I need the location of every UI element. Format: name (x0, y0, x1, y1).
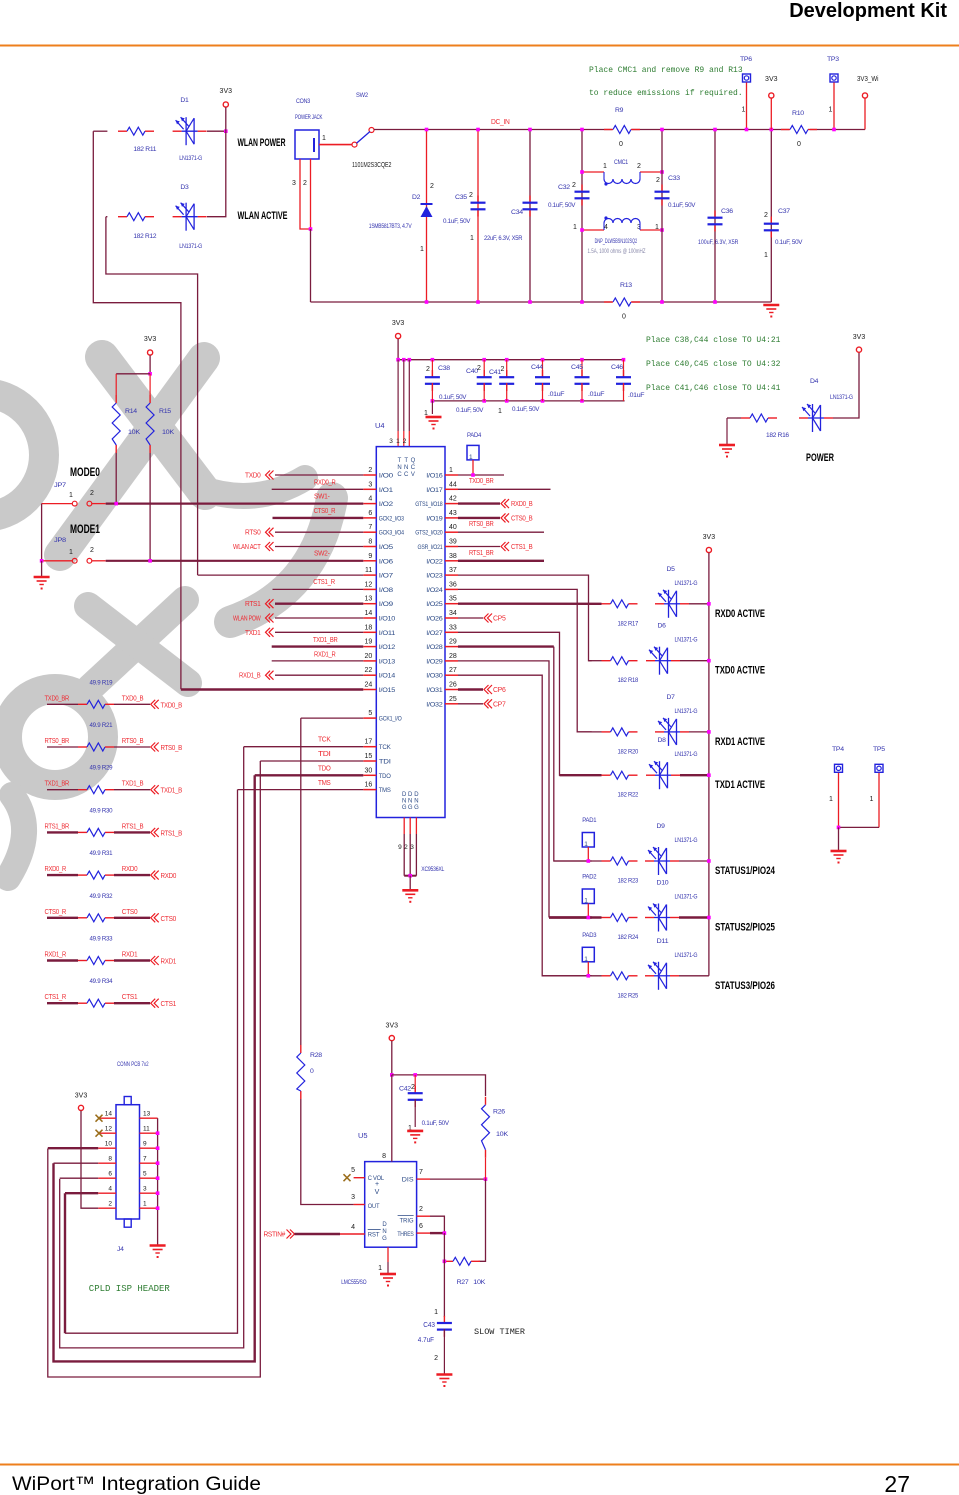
svg-text:1: 1 (573, 224, 577, 231)
svg-text:C38: C38 (438, 365, 450, 372)
svg-text:TP5: TP5 (873, 746, 885, 753)
svg-text:TXD0_B: TXD0_B (161, 700, 183, 709)
svg-text:I/O29: I/O29 (426, 658, 443, 665)
svg-text:39: 39 (449, 539, 457, 546)
svg-text:CPLD ISP HEADER: CPLD ISP HEADER (89, 1284, 171, 1294)
svg-text:STATUS3/PIO26: STATUS3/PIO26 (715, 980, 775, 992)
svg-text:33: 33 (449, 624, 457, 631)
svg-text:8: 8 (368, 539, 372, 546)
svg-text:4: 4 (368, 496, 372, 503)
svg-text:SLOW TIMER: SLOW TIMER (474, 1327, 525, 1337)
svg-text:4: 4 (351, 1224, 355, 1231)
svg-text:LN1371-G: LN1371-G (675, 894, 698, 901)
svg-text:3: 3 (368, 481, 372, 488)
svg-text:20: 20 (365, 653, 373, 660)
svg-text:RTS0_BR: RTS0_BR (469, 519, 494, 528)
svg-text:38: 38 (449, 553, 457, 560)
svg-text:25: 25 (449, 696, 457, 703)
svg-text:N: N (408, 799, 412, 805)
svg-text:3: 3 (292, 180, 296, 187)
svg-text:LN1371-G: LN1371-G (179, 243, 202, 250)
svg-text:49.9 R29: 49.9 R29 (90, 765, 113, 772)
svg-text:STATUS1/PIO24: STATUS1/PIO24 (715, 865, 776, 877)
svg-text:Q: Q (411, 458, 416, 464)
svg-text:RXD0: RXD0 (161, 871, 177, 880)
svg-text:0: 0 (619, 141, 623, 148)
svg-text:2: 2 (764, 212, 768, 219)
svg-text:0.1uF, 50V: 0.1uF, 50V (456, 407, 484, 414)
svg-text:3V3_Wi: 3V3_Wi (857, 76, 879, 83)
svg-text:N: N (404, 465, 408, 471)
svg-text:5: 5 (368, 710, 372, 717)
svg-text:C43: C43 (423, 1322, 435, 1329)
svg-text:12: 12 (105, 1126, 113, 1133)
svg-text:1: 1 (870, 796, 874, 803)
svg-text:14: 14 (365, 610, 373, 617)
svg-text:RXD1: RXD1 (122, 950, 138, 959)
svg-text:TP3: TP3 (827, 56, 839, 63)
svg-text:0.1uF, 50V: 0.1uF, 50V (439, 394, 467, 401)
svg-text:12: 12 (365, 581, 373, 588)
svg-text:CTS0_R: CTS0_R (314, 506, 336, 515)
svg-text:100uF, 6.3V, X5R: 100uF, 6.3V, X5R (698, 239, 739, 246)
svg-text:TDO: TDO (318, 763, 331, 772)
svg-text:R10: R10 (792, 110, 804, 117)
svg-text:.01uF: .01uF (548, 391, 564, 398)
svg-text:LN1371-G: LN1371-G (675, 580, 698, 587)
svg-text:RTS1_B: RTS1_B (161, 828, 183, 837)
svg-text:RXD1_B: RXD1_B (239, 671, 261, 680)
svg-text:CTS0: CTS0 (122, 907, 138, 916)
svg-text:1: 1 (470, 235, 474, 242)
svg-text:R9: R9 (615, 107, 624, 114)
svg-text:1SMB5817BT3, 4.7V: 1SMB5817BT3, 4.7V (369, 223, 412, 230)
svg-text:35: 35 (449, 596, 457, 603)
svg-text:182 R24: 182 R24 (618, 934, 639, 941)
svg-text:24: 24 (365, 682, 373, 689)
svg-text:9: 9 (398, 844, 402, 851)
svg-text:6: 6 (108, 1171, 112, 1178)
svg-text:17: 17 (365, 739, 373, 746)
svg-text:I/O6: I/O6 (379, 558, 394, 565)
svg-text:4: 4 (108, 1186, 112, 1193)
svg-text:T: T (398, 458, 402, 464)
svg-text:5: 5 (143, 1171, 147, 1178)
svg-text:D1: D1 (180, 97, 189, 104)
svg-text:RTS1_B: RTS1_B (122, 821, 144, 830)
svg-text:CTS0_B: CTS0_B (511, 513, 533, 522)
svg-text:1: 1 (498, 408, 502, 415)
svg-text:PAD1: PAD1 (582, 817, 596, 824)
svg-text:RXD1: RXD1 (161, 957, 177, 966)
svg-text:182 R25: 182 R25 (618, 992, 639, 999)
svg-text:182 R22: 182 R22 (618, 792, 639, 799)
svg-text:2: 2 (303, 180, 307, 187)
svg-text:LN1371-G: LN1371-G (675, 708, 698, 715)
svg-text:G: G (408, 805, 413, 811)
svg-text:0.1uF, 50V: 0.1uF, 50V (548, 202, 576, 209)
svg-text:10K: 10K (162, 429, 175, 436)
svg-text:4.7uF: 4.7uF (418, 1337, 434, 1344)
svg-text:1: 1 (69, 492, 73, 499)
svg-text:2: 2 (411, 1084, 415, 1091)
svg-text:4: 4 (604, 224, 608, 231)
svg-text:11: 11 (143, 1126, 150, 1133)
svg-text:0.1uF, 50V: 0.1uF, 50V (668, 202, 696, 209)
svg-text:49.9 R21: 49.9 R21 (90, 722, 113, 729)
svg-text:D2: D2 (412, 194, 421, 201)
svg-text:CP5: CP5 (493, 614, 506, 623)
svg-text:D7: D7 (667, 694, 676, 701)
svg-text:0.1uF, 50V: 0.1uF, 50V (775, 239, 803, 246)
svg-text:GSR_I/O21: GSR_I/O21 (418, 544, 444, 551)
svg-text:16: 16 (365, 782, 373, 789)
svg-text:J4: J4 (117, 1246, 124, 1253)
svg-text:N: N (397, 465, 401, 471)
svg-text:182 R11: 182 R11 (133, 146, 156, 153)
svg-text:XC9536XL: XC9536XL (421, 866, 444, 873)
svg-text:I/O22: I/O22 (426, 558, 443, 565)
svg-text:36: 36 (449, 581, 457, 588)
svg-text:7: 7 (368, 524, 372, 531)
svg-text:R14: R14 (125, 408, 137, 415)
svg-text:I/O16: I/O16 (426, 473, 443, 480)
svg-text:2: 2 (469, 192, 473, 199)
svg-text:49.9 R31: 49.9 R31 (90, 850, 113, 857)
svg-text:22: 22 (365, 667, 373, 674)
svg-text:1.5A, 1000 ohms @ 100mHZ: 1.5A, 1000 ohms @ 100mHZ (588, 249, 646, 255)
svg-text:D: D (414, 792, 419, 798)
svg-text:GCK1_I/O: GCK1_I/O (379, 716, 402, 723)
svg-text:TXD0_BR: TXD0_BR (45, 693, 70, 702)
svg-text:Place C40,C45 close TO U4:32: Place C40,C45 close TO U4:32 (646, 360, 781, 369)
svg-text:TXD1_BR: TXD1_BR (313, 635, 338, 644)
svg-text:LN1371-G: LN1371-G (675, 751, 698, 758)
svg-text:PAD4: PAD4 (467, 432, 481, 439)
svg-text:C34: C34 (511, 209, 523, 216)
svg-text:I/O12: I/O12 (379, 644, 396, 651)
svg-text:THRES: THRES (397, 1231, 413, 1238)
svg-text:G: G (402, 805, 407, 811)
svg-text:I/O14: I/O14 (379, 673, 396, 680)
svg-text:44: 44 (449, 481, 457, 488)
svg-text:1: 1 (584, 841, 588, 848)
svg-text:I/O2: I/O2 (379, 501, 394, 508)
svg-text:TXD0: TXD0 (245, 471, 261, 480)
svg-text:CON3: CON3 (296, 98, 310, 105)
svg-text:RTS1_BR: RTS1_BR (469, 548, 494, 557)
svg-text:RTS0: RTS0 (245, 528, 261, 537)
svg-text:TXD0_BR: TXD0_BR (469, 476, 494, 485)
svg-text:1: 1 (603, 163, 607, 170)
svg-text:I/O0: I/O0 (379, 473, 394, 480)
svg-text:PAD2: PAD2 (582, 874, 596, 881)
svg-text:N: N (402, 799, 406, 805)
svg-text:9: 9 (143, 1141, 147, 1148)
svg-text:TDI: TDI (379, 759, 391, 766)
svg-text:GTS2_I/O20: GTS2_I/O20 (415, 530, 443, 537)
svg-text:RTS1: RTS1 (245, 599, 261, 608)
svg-text:N: N (382, 1229, 386, 1235)
svg-text:15: 15 (365, 753, 373, 760)
svg-text:CTS0_R: CTS0_R (45, 907, 67, 916)
svg-text:C33: C33 (668, 175, 680, 182)
svg-text:RTS1_BR: RTS1_BR (45, 821, 70, 830)
svg-text:I/O31: I/O31 (426, 687, 443, 694)
svg-text:I/O28: I/O28 (426, 644, 443, 651)
svg-text:182 R17: 182 R17 (618, 620, 639, 627)
svg-text:RXD0_R: RXD0_R (45, 864, 67, 873)
svg-text:11: 11 (365, 567, 372, 574)
svg-text:I/O26: I/O26 (426, 616, 443, 623)
svg-text:JP7: JP7 (54, 482, 66, 489)
svg-text:7: 7 (143, 1156, 147, 1163)
svg-text:C37: C37 (778, 208, 790, 215)
svg-text:CTS1: CTS1 (161, 999, 177, 1008)
svg-text:CTS1_R: CTS1_R (313, 577, 335, 586)
svg-text:49.9 R33: 49.9 R33 (90, 936, 113, 943)
svg-text:TXD0 ACTIVE: TXD0 ACTIVE (715, 665, 765, 677)
svg-text:I/O30: I/O30 (426, 673, 443, 680)
svg-text:2: 2 (419, 1206, 423, 1213)
svg-text:27: 27 (884, 1471, 910, 1495)
svg-text:D3: D3 (180, 184, 189, 191)
svg-text:N: N (414, 799, 418, 805)
svg-text:1: 1 (69, 549, 73, 556)
svg-text:6: 6 (419, 1223, 423, 1230)
svg-text:30: 30 (365, 767, 373, 774)
svg-text:U5: U5 (358, 1131, 368, 1140)
svg-text:I/O13: I/O13 (379, 658, 396, 665)
svg-text:.01uF: .01uF (628, 392, 644, 399)
svg-text:10: 10 (105, 1141, 113, 1148)
svg-text:.01uF: .01uF (588, 391, 604, 398)
svg-text:I/O32: I/O32 (426, 701, 443, 708)
svg-text:3V3: 3V3 (853, 334, 866, 341)
svg-text:1: 1 (322, 135, 326, 142)
svg-text:C46: C46 (611, 364, 623, 371)
svg-text:1: 1 (396, 438, 400, 445)
svg-text:Place C38,C44 close TO U4:21: Place C38,C44 close TO U4:21 (646, 336, 781, 345)
svg-text:3V3: 3V3 (75, 1093, 88, 1100)
svg-text:TXD1: TXD1 (245, 628, 261, 637)
svg-text:WLAN POWER: WLAN POWER (238, 137, 286, 149)
svg-text:MODE0: MODE0 (70, 465, 100, 479)
svg-text:I/O19: I/O19 (426, 515, 443, 522)
svg-text:I/O11: I/O11 (379, 630, 396, 637)
svg-text:C45: C45 (571, 364, 583, 371)
svg-text:22uF, 6.3V, X5R: 22uF, 6.3V, X5R (484, 235, 523, 242)
svg-text:1: 1 (420, 246, 424, 253)
svg-text:D: D (408, 792, 413, 798)
svg-text:SW1-: SW1- (314, 492, 330, 501)
svg-text:10K: 10K (496, 1131, 509, 1138)
svg-text:CTS1: CTS1 (122, 992, 138, 1001)
svg-text:2: 2 (501, 366, 505, 373)
svg-text:2: 2 (430, 183, 434, 190)
svg-text:DNP_DLW5BSN102SQ2: DNP_DLW5BSN102SQ2 (595, 238, 638, 245)
svg-text:RXD0_R: RXD0_R (314, 478, 336, 487)
svg-text:TMS: TMS (318, 778, 331, 787)
svg-text:RXD0_B: RXD0_B (511, 499, 533, 508)
svg-text:0: 0 (797, 141, 801, 148)
svg-text:LMC555/SO: LMC555/SO (341, 1279, 366, 1286)
svg-text:13: 13 (143, 1111, 151, 1118)
svg-text:CTS1_B: CTS1_B (511, 542, 533, 551)
svg-text:WiPort™ Integration Guide: WiPort™ Integration Guide (12, 1473, 261, 1495)
svg-text:OUT: OUT (368, 1203, 380, 1210)
svg-text:3V3: 3V3 (392, 320, 405, 327)
svg-text:R13: R13 (620, 282, 632, 289)
svg-text:CP7: CP7 (493, 699, 506, 708)
svg-text:POWER JACK: POWER JACK (295, 114, 323, 121)
svg-text:2: 2 (637, 163, 641, 170)
svg-text:TCK: TCK (318, 735, 331, 744)
svg-text:5: 5 (351, 1167, 355, 1174)
svg-text:U4: U4 (375, 421, 385, 430)
svg-text:V: V (411, 472, 415, 478)
svg-text:Development Kit: Development Kit (789, 0, 947, 22)
svg-text:Place C41,C46 close TO U4:41: Place C41,C46 close TO U4:41 (646, 384, 781, 393)
svg-text:3V3: 3V3 (703, 534, 716, 541)
svg-text:3: 3 (389, 438, 393, 445)
svg-text:D4: D4 (810, 378, 819, 385)
svg-text:G: G (414, 805, 419, 811)
svg-text:RXD1_R: RXD1_R (314, 649, 336, 658)
svg-text:1: 1 (829, 796, 833, 803)
svg-text:34: 34 (449, 610, 457, 617)
svg-text:14: 14 (105, 1111, 113, 1118)
svg-text:I/O5: I/O5 (379, 544, 394, 551)
svg-text:I/O25: I/O25 (426, 601, 443, 608)
svg-text:D10: D10 (657, 880, 669, 887)
svg-text:TXD1_BR: TXD1_BR (45, 779, 70, 788)
svg-text:C32: C32 (558, 184, 570, 191)
svg-text:Place CMC1 and remove R9 and R: Place CMC1 and remove R9 and R13 (589, 66, 743, 75)
svg-text:3V3: 3V3 (220, 88, 233, 95)
svg-text:9: 9 (368, 553, 372, 560)
svg-text:7: 7 (419, 1169, 423, 1176)
svg-text:10K: 10K (473, 1279, 486, 1286)
svg-text:STATUS2/PIO25: STATUS2/PIO25 (715, 922, 775, 934)
svg-text:G: G (382, 1236, 387, 1242)
svg-text:182 R16: 182 R16 (766, 432, 789, 439)
svg-text:DC_IN: DC_IN (491, 117, 510, 126)
svg-text:T: T (404, 458, 408, 464)
svg-text:3V3: 3V3 (386, 1023, 399, 1030)
svg-text:I/O23: I/O23 (426, 573, 443, 580)
svg-text:C44: C44 (531, 364, 543, 371)
svg-text:RXD0 ACTIVE: RXD0 ACTIVE (715, 608, 765, 620)
svg-text:49.9 R34: 49.9 R34 (90, 978, 113, 985)
svg-text:2: 2 (90, 490, 94, 497)
svg-text:POWER: POWER (806, 452, 834, 464)
svg-text:18: 18 (365, 624, 373, 631)
svg-text:TP4: TP4 (832, 746, 844, 753)
svg-text:1: 1 (469, 454, 473, 461)
svg-text:2: 2 (434, 1355, 438, 1362)
svg-text:0: 0 (310, 1068, 314, 1075)
svg-text:CTS0: CTS0 (161, 914, 177, 923)
svg-text:I/O17: I/O17 (426, 487, 443, 494)
svg-text:TRIG: TRIG (400, 1218, 414, 1225)
svg-text:RST: RST (368, 1232, 380, 1239)
svg-text:LN1371-G: LN1371-G (675, 637, 698, 644)
svg-text:TDI: TDI (318, 749, 331, 758)
svg-text:1: 1 (143, 1201, 147, 1208)
svg-text:GCK2_I/O3: GCK2_I/O3 (379, 515, 405, 522)
svg-text:SW2-: SW2- (314, 549, 330, 558)
svg-text:29: 29 (449, 639, 457, 646)
svg-text:3: 3 (410, 844, 414, 851)
svg-text:TXD0_B: TXD0_B (122, 693, 144, 702)
svg-text:0.1uF, 50V: 0.1uF, 50V (443, 218, 471, 225)
svg-text:1101M2S3CQE2: 1101M2S3CQE2 (352, 162, 392, 169)
svg-text:LN1371-G: LN1371-G (675, 837, 698, 844)
svg-text:GTS1_I/O18: GTS1_I/O18 (415, 501, 443, 508)
svg-text:WLAN ACTIVE: WLAN ACTIVE (238, 210, 288, 222)
svg-text:RXD1_R: RXD1_R (45, 950, 67, 959)
svg-text:I/O8: I/O8 (379, 587, 394, 594)
svg-text:TP6: TP6 (740, 56, 752, 63)
svg-text:1: 1 (764, 252, 768, 259)
svg-text:I/O27: I/O27 (426, 630, 443, 637)
svg-text:CONN PCB 7x2: CONN PCB 7x2 (117, 1061, 149, 1068)
svg-text:1: 1 (742, 107, 746, 114)
svg-text:1: 1 (434, 1309, 438, 1316)
svg-text:TXD1_B: TXD1_B (161, 786, 183, 795)
svg-text:3V3: 3V3 (144, 336, 157, 343)
svg-text:2: 2 (368, 467, 372, 474)
svg-text:R26: R26 (493, 1109, 505, 1116)
svg-text:3: 3 (351, 1194, 355, 1201)
svg-text:1: 1 (449, 467, 453, 474)
svg-text:I/O7: I/O7 (379, 573, 394, 580)
svg-text:JP8: JP8 (54, 537, 66, 544)
svg-text:RTS0_BR: RTS0_BR (45, 736, 70, 745)
svg-text:R27: R27 (457, 1279, 469, 1286)
svg-text:2: 2 (108, 1201, 112, 1208)
svg-text:40: 40 (449, 524, 457, 531)
svg-text:182 R18: 182 R18 (618, 677, 639, 684)
svg-text:2: 2 (404, 844, 408, 851)
svg-text:D: D (402, 792, 407, 798)
svg-text:TXD1_B: TXD1_B (122, 779, 144, 788)
svg-text:I/O1: I/O1 (379, 487, 394, 494)
svg-text:MODE1: MODE1 (70, 522, 100, 536)
svg-text:CTS1_R: CTS1_R (45, 992, 67, 1001)
svg-text:V: V (375, 1189, 380, 1196)
svg-text:182 R20: 182 R20 (618, 748, 639, 755)
svg-text:C35: C35 (455, 194, 467, 201)
svg-text:1: 1 (655, 224, 659, 231)
svg-text:2: 2 (426, 366, 430, 373)
svg-text:2: 2 (572, 182, 576, 189)
svg-text:43: 43 (449, 510, 457, 517)
svg-text:I/O24: I/O24 (426, 587, 443, 594)
svg-text:D5: D5 (667, 566, 676, 573)
svg-text:0: 0 (622, 314, 626, 321)
svg-text:49.9 R32: 49.9 R32 (90, 893, 113, 900)
svg-text:8: 8 (382, 1153, 386, 1160)
svg-text:WLAN ACT: WLAN ACT (233, 542, 261, 551)
svg-text:GCK3_I/O4: GCK3_I/O4 (379, 530, 405, 537)
svg-text:D: D (382, 1222, 387, 1228)
svg-text:1: 1 (829, 107, 833, 114)
svg-text:I/O9: I/O9 (379, 601, 394, 608)
svg-text:37: 37 (449, 567, 457, 574)
svg-text:1: 1 (584, 956, 588, 963)
